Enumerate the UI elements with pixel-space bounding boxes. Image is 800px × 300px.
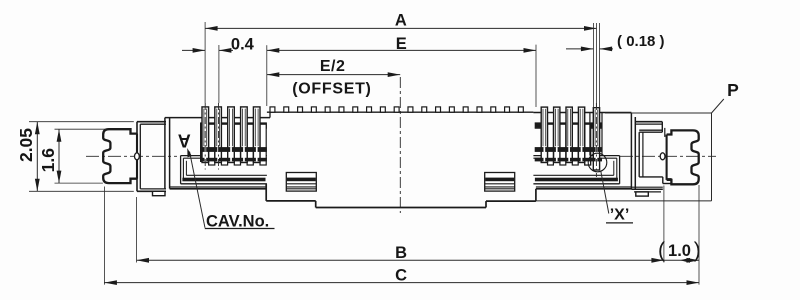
dimension E/2 offset [267, 74, 400, 76]
svg-text:): ) [694, 239, 701, 262]
svg-text:C: C [395, 267, 407, 285]
dimension B [137, 259, 664, 261]
left latch bump oval [135, 153, 140, 160]
right mating tongue with scalloped edge [667, 130, 699, 184]
X detail leader [601, 171, 609, 213]
svg-text:0.4: 0.4 [231, 36, 255, 54]
svg-text:( 0.18 ): ( 0.18 ) [617, 33, 665, 50]
svg-text:A: A [395, 12, 407, 30]
step up to contact strip [269, 112, 271, 117]
svg-text:(OFFSET): (OFFSET) [292, 80, 371, 97]
left tray bottom slab [182, 178, 265, 182]
svg-text:(: ( [658, 239, 665, 262]
svg-text:1.6: 1.6 [38, 148, 58, 173]
right tray bottom slab [535, 178, 618, 182]
left terminal tray [181, 155, 267, 157]
left pin block rear pins [209, 124, 215, 165]
contact tail strip baseline [267, 111, 534, 113]
right terminal tray [533, 155, 619, 157]
right end top arm [635, 121, 662, 123]
dimension 1.6 [58, 129, 60, 183]
right retainer window block [485, 173, 515, 192]
left pin 1 centerline [204, 103, 206, 170]
svg-text:’X’: ’X’ [610, 207, 630, 224]
last terminal pin at X detail [593, 108, 599, 170]
right end arm end cap [664, 128, 666, 137]
vertical centerline at E/2 offset datum [399, 77, 401, 213]
svg-text:E/2: E/2 [320, 58, 346, 75]
svg-text:B: B [395, 244, 407, 262]
left mating tongue with scalloped edge [103, 129, 137, 183]
horizontal centerline right end [620, 155, 716, 157]
dimension A [205, 27, 596, 29]
dimension A extension lines [204, 22, 206, 103]
svg-text:1.0: 1.0 [668, 242, 691, 260]
dimension 0.4 [182, 49, 205, 51]
left pin block front pins [202, 107, 209, 163]
terminal pin channel walls [589, 113, 591, 156]
contact tail teeth row [270, 107, 275, 112]
housing top edge behind right pins [533, 112, 631, 114]
right pin block rear pins [548, 124, 554, 165]
right end arm inner wall [638, 132, 640, 177]
right pin block front pins [541, 107, 547, 162]
CAV.No. leader with arrowhead [190, 152, 206, 228]
right end bottom hook [639, 176, 663, 178]
dimension E [267, 49, 536, 51]
dimension 1.0 reference [664, 259, 699, 261]
right pin block shoulder band [535, 123, 602, 128]
svg-text:P: P [727, 80, 739, 100]
last pin centerline [595, 103, 597, 177]
left mounting foot [153, 191, 166, 195]
dimension 2.05 [36, 122, 38, 192]
left retainer window block [286, 173, 316, 192]
left pin block solder bands [200, 147, 267, 152]
housing bottom profile with center step [170, 186, 266, 188]
right pin block solder bands [535, 147, 602, 152]
right tongue left face [666, 135, 668, 180]
housing front face left double line [164, 118, 166, 189]
left pin block left edge [200, 123, 202, 162]
housing right face double line [630, 113, 632, 190]
dimension 0.18 [566, 48, 593, 50]
right mounting foot [636, 192, 649, 196]
horizontal centerline left end [86, 155, 177, 157]
dimension C [104, 282, 699, 284]
housing top edge left segment [165, 117, 270, 119]
left pin block shoulder band [200, 123, 267, 128]
left housing end wall bracket [136, 122, 138, 192]
P zone box [605, 112, 712, 114]
X detail circle [588, 153, 607, 172]
svg-text:2.05: 2.05 [16, 128, 36, 162]
left pin 2 centerline [218, 103, 220, 170]
svg-text:E: E [396, 35, 407, 53]
right latch bump oval [660, 153, 665, 160]
left tongue right face [136, 134, 138, 179]
right end bottom cap [631, 186, 662, 188]
svg-text:A: A [178, 131, 191, 151]
svg-text:CAV.No.: CAV.No. [206, 212, 269, 230]
